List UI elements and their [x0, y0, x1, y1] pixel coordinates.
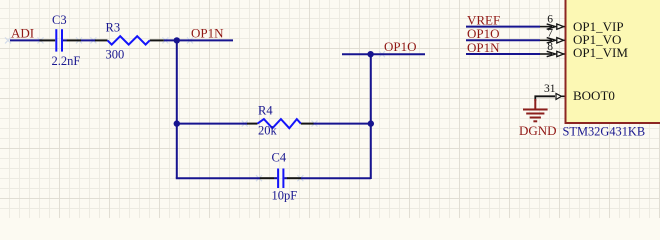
pin 6 line and arrows: [540, 24, 565, 29]
wire stub C4 left: [274, 177, 277, 179]
pin number 7: [547, 27, 553, 39]
svg-text:DGND: DGND: [519, 123, 557, 138]
value 2.2nF: [52, 54, 81, 68]
junction right R4 row: [368, 120, 374, 126]
wire C3 to R3: [81, 39, 96, 41]
label C3: [52, 13, 67, 27]
label R3: [106, 21, 121, 35]
wire VREF to pin 6: [466, 26, 540, 28]
svg-text:2.2nF: 2.2nF: [52, 54, 81, 68]
pin name OP1_VIM: [573, 45, 628, 60]
net label OP1N (at pin 8): [467, 40, 500, 55]
net label DGND: [519, 123, 557, 138]
wire OP1N to pin 8: [466, 53, 540, 55]
wire stub C4 right: [284, 177, 287, 179]
capacitor C4: [278, 169, 283, 189]
wire R4 row left: [177, 123, 248, 125]
value 20k: [258, 124, 278, 138]
pin number 6: [547, 14, 553, 26]
svg-text:20k: 20k: [258, 124, 278, 138]
pin 7 line and arrows: [540, 38, 565, 43]
svg-text:300: 300: [106, 47, 125, 61]
net label OP1N (main row): [191, 26, 224, 41]
svg-text:6: 6: [547, 14, 553, 26]
svg-text:ADI: ADI: [11, 26, 34, 41]
wire bottom row right: [301, 177, 371, 179]
wire OP1O to pin 7: [466, 39, 540, 41]
wire left vertical: [176, 40, 178, 178]
svg-text:10pF: 10pF: [272, 189, 298, 203]
svg-text:8: 8: [547, 41, 553, 53]
svg-text:C4: C4: [272, 151, 287, 165]
svg-text:OP1O: OP1O: [384, 39, 417, 54]
svg-text:C3: C3: [52, 13, 67, 27]
pin name OP1_VO: [573, 32, 621, 47]
wire R4 row right: [313, 123, 370, 125]
wire stub C3 right: [63, 39, 67, 41]
capacitor C3: [56, 29, 62, 51]
value 300: [106, 47, 125, 61]
svg-text:OP1N: OP1N: [191, 26, 224, 41]
label R4: [258, 104, 273, 118]
pin 31 arrow: [556, 94, 565, 100]
wire pin 31 to ground: [535, 96, 555, 101]
capacitor C4 leads: [260, 177, 301, 179]
label C4: [272, 151, 287, 165]
wire right vertical: [370, 54, 372, 179]
net label OP1O (at pin 7): [467, 26, 500, 41]
resistor R4 leads: [247, 123, 314, 125]
pin name BOOT0: [573, 88, 615, 103]
junction OP1O tee: [367, 51, 373, 57]
svg-text:STM32G431KB: STM32G431KB: [563, 124, 646, 138]
wire R3 to OP1N: [164, 39, 233, 41]
svg-text:7: 7: [547, 27, 553, 39]
wire main row ADI to C3: [10, 39, 42, 41]
resistor R3: [108, 36, 150, 44]
svg-text:BOOT0: BOOT0: [573, 88, 615, 103]
pin number 8: [547, 41, 553, 53]
pin hotspot crosses: [5, 37, 385, 181]
svg-text:R4: R4: [258, 104, 273, 118]
pin 8 line and arrows: [540, 51, 565, 56]
ground DGND power port: [523, 99, 548, 121]
junction left R4 row: [174, 120, 180, 126]
svg-text:31: 31: [544, 83, 556, 95]
capacitor C3 leads: [40, 39, 82, 41]
svg-text:OP1N: OP1N: [467, 40, 500, 55]
value 10pF: [272, 189, 298, 203]
net label OP1O (middle): [384, 39, 417, 54]
pin number 31: [544, 83, 556, 95]
resistor R3 leads: [95, 39, 164, 41]
resistor R4: [258, 119, 301, 128]
svg-text:R3: R3: [106, 21, 121, 35]
wire OP1O row: [342, 53, 425, 55]
net label ADI: [11, 26, 34, 41]
svg-text:OP1_VIM: OP1_VIM: [573, 45, 628, 60]
designator STM32G431KB: [563, 124, 646, 138]
junction at node OP1N column: [174, 37, 180, 43]
component U1 body (yellow IC rectangle): [566, 0, 660, 123]
wire bottom row left: [176, 177, 260, 179]
net label VREF: [467, 12, 500, 27]
pin name OP1_VIP: [573, 19, 624, 34]
